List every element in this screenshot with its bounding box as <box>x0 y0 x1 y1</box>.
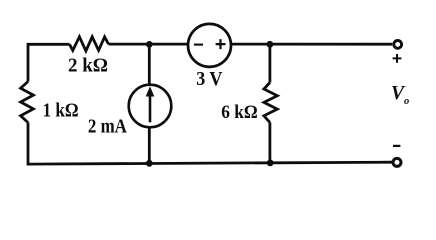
svg-text:2 kΩ: 2 kΩ <box>68 54 108 76</box>
svg-text:1 kΩ: 1 kΩ <box>43 100 79 122</box>
svg-text:Vo: Vo <box>391 83 409 107</box>
svg-text:6 kΩ: 6 kΩ <box>221 102 257 123</box>
svg-text:3 V: 3 V <box>196 68 223 90</box>
svg-text:2 mA: 2 mA <box>88 117 127 138</box>
